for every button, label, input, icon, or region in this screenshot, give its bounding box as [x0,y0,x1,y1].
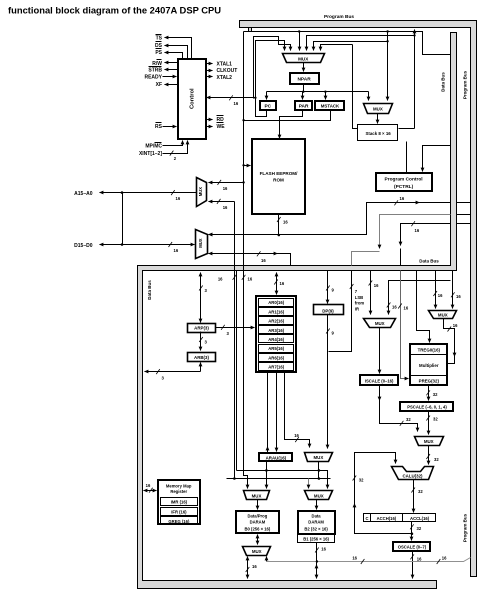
wire: band taps to program bus band [457,203,471,224]
svg-text:16: 16 [252,564,257,569]
svg-text:XF: XF [156,82,162,88]
wire: data bus band tap into PCTRL [423,146,451,172]
wire: 7 LSB from IR feed joining DP column [329,271,352,352]
svg-text:16: 16 [261,258,266,263]
wire: address rail 2 [227,478,331,480]
svg-text:16: 16 [392,305,397,310]
wire: FLASH ROM output down to program data wire [278,214,280,235]
mux: DARAM B2/B1 input MUX [305,491,333,500]
svg-text:OSCALE (0–7): OSCALE (0–7) [398,545,427,550]
bus: bar drop stub [249,28,252,32]
svg-text:AR6(16): AR6(16) [268,355,284,360]
node B: data address column [234,202,236,479]
block: MSTACK [315,101,344,110]
svg-text:3: 3 [205,340,208,345]
wire: XF out of Control left [165,84,178,86]
svg-text:16: 16 [417,556,422,561]
register: IFR(16) [161,508,198,516]
wire: rail to stack MUX left input [368,92,370,101]
svg-text:XTAL1: XTAL1 [217,61,233,67]
svg-text:MUX: MUX [314,455,324,460]
svg-text:LSB: LSB [355,295,363,300]
wire: stack MUX output to stack [377,114,379,124]
wire: rail to DARAM B2 mux input 1 [308,479,310,489]
wire: center mux output to ISCALE [379,328,381,374]
wire: data mux to FLASH wire W1 [209,234,279,236]
wire: data mux to core data bus [209,254,291,266]
wire: PAR to FLASH ROM [280,110,303,139]
svg-text:DARAM: DARAM [308,520,324,525]
svg-text:Program Bus: Program Bus [324,14,354,20]
svg-text:Program Bus: Program Bus [463,70,468,99]
block: ARP(3) [188,324,216,333]
svg-text:32: 32 [434,457,439,462]
svg-text:IR: IR [355,306,359,311]
svg-text:16: 16 [404,306,409,311]
wire: rail to DARAM B0 mux input 2 [266,471,268,489]
svg-text:MUX: MUX [198,187,203,197]
wire: AR file link to data bus band [276,273,278,295]
svg-text:TREG0(16): TREG0(16) [418,348,441,353]
wire: ISCALE output to ALU mux [379,385,381,401]
svg-text:MUX: MUX [373,107,383,112]
wire: feed to MUX input 5 [314,42,388,51]
svg-text:Register: Register [170,489,187,494]
svg-text:16: 16 [248,277,253,282]
svg-text:RS: RS [155,124,163,130]
block: Program Control (PCTRL) [376,173,432,191]
svg-text:16: 16 [374,283,379,288]
svg-text:2: 2 [174,156,177,161]
node A: program address column [244,32,248,489]
wire: riser from band to TREG0 [417,271,430,343]
block: Data/Prog DARAM B0 [236,511,279,533]
wire: PSCALE output to ALU mux [428,411,430,435]
svg-text:A15–A0: A15–A0 [74,191,93,197]
svg-text:16: 16 [400,196,405,201]
svg-text:XINT[1–2]: XINT[1–2] [139,151,162,157]
svg-text:(PCTRL): (PCTRL) [394,184,414,190]
svg-text:WE: WE [217,124,226,130]
wire: XINT[1-2] into Control bottom [163,141,188,154]
svg-text:ACCL(16): ACCL(16) [410,516,430,521]
svg-text:16: 16 [456,294,461,299]
register: ACCL(16) [403,514,436,522]
svg-text:B0 (256 × 16): B0 (256 × 16) [245,526,271,531]
svg-text:FLASH EEPROM/: FLASH EEPROM/ [260,171,298,176]
svg-text:AR1(16): AR1(16) [268,309,284,314]
block: ARB(3) [188,353,216,362]
svg-text:GREG (16): GREG (16) [168,519,190,524]
register: ACCH(16) [371,514,403,522]
wire: DS out of Control top [165,46,188,59]
wire: CLKOUT out of Control right [206,70,213,72]
wire: DP output to ARAU mux [327,315,329,449]
bus: CPU core Data Bus ring (left band, top band, bottom band, right vertical Data Bus band) [138,33,457,589]
svg-text:DARAM: DARAM [250,520,266,525]
register: C flag [364,514,371,522]
wire: feed to MUX input 3 from top rail [299,32,301,51]
block: DARAM B1 [298,535,335,543]
mux: program address MUX (top section) [283,54,325,63]
svg-text:MUX: MUX [198,238,203,248]
block: ARAU(16) [259,453,292,461]
svg-text:32: 32 [417,526,422,531]
wire: MSTACK bottom rail joining node A column [244,110,331,121]
svg-text:AR5(16): AR5(16) [268,346,284,351]
svg-text:16: 16 [415,228,420,233]
svg-text:PREG(32): PREG(32) [419,378,440,383]
svg-text:9: 9 [332,331,335,336]
mux: data pins MUX [196,230,208,259]
svg-text:Control: Control [190,88,196,109]
svg-text:16: 16 [321,547,326,552]
wire: B0 mux output [257,500,259,510]
block: OSCALE (0-7) [393,542,430,551]
wire: riser from program bus bar to stack right [414,30,416,129]
register: AR5(16) [259,345,294,353]
wire: rail branch to DARAM B2 mux input 2 [319,471,328,489]
wire: ARP to AR stack [216,327,255,329]
wire: ARAU result column riser [236,271,238,471]
svg-text:AR7(16): AR7(16) [268,365,284,370]
wire: W3 from band down through ring to PREG column [401,224,451,246]
svg-text:C: C [365,516,368,521]
svg-text:IFR (16): IFR (16) [171,509,187,514]
svg-text:PS: PS [155,50,162,56]
svg-text:from: from [355,301,365,306]
svg-text:16: 16 [352,556,357,561]
wire: AR file third port to ARAU mux [285,373,310,448]
wire: CALU output to ACC [413,480,415,513]
wire: right mux input 1 [435,271,437,309]
wire: NPAR output distribution rail [267,84,369,92]
svg-text:ISCALE (0–16): ISCALE (0–16) [365,378,394,383]
svg-text:XTAL2: XTAL2 [217,75,233,81]
wire: center mux input 2 from band corner [389,281,451,315]
wire: DP input from data bus band [327,271,329,304]
wire: rail to MSTACK [325,92,327,100]
svg-text:16: 16 [176,196,181,201]
wire: riser to MSTACK mux right input [387,32,389,101]
svg-text:Data Bus: Data Bus [419,259,439,264]
svg-text:AR2(16): AR2(16) [268,319,284,324]
register: AR4(16) [259,335,294,343]
register: AR2(16) [259,317,294,325]
svg-text:READY: READY [144,75,162,81]
wire: gray riser from band to PREG input [401,271,409,379]
svg-text:PSCALE (–6, 0, 1, 4): PSCALE (–6, 0, 1, 4) [407,404,447,409]
wire: address rail 1 [237,470,319,472]
svg-text:16: 16 [438,293,443,298]
alu: CALU(32) [392,467,434,480]
svg-text:ARAU(16): ARAU(16) [266,455,287,460]
wire: PS out of Control top [165,53,183,59]
wire: bottom mux to program bus (bottom band) [247,557,249,579]
block: Stack 8x16 [358,125,398,141]
block: Memory Map Register [158,480,200,524]
mux: operand select MUX (center) [364,319,396,328]
wire: READY into Control left [163,76,177,78]
wire: ACC feedback to CALU left input [355,453,412,534]
wire: ARAU mux output joining rails [318,462,320,479]
svg-text:16: 16 [453,323,458,328]
wire: A15-A0 address pins [100,192,197,194]
svg-text:16: 16 [218,277,223,282]
wire: stack to PCTRL [406,142,408,173]
wire: feed to MUX input 6 [321,45,353,51]
wire: feed to MUX input 4 from stack/program-bus riser [307,36,415,51]
svg-text:16: 16 [442,556,447,561]
svg-text:Program Control: Program Control [385,177,423,183]
block: TREG0 / Multiplier / PREG [410,344,447,385]
wire: OSCALE output to bottom data bus band [412,551,414,579]
svg-text:MUX: MUX [252,493,262,498]
svg-text:16: 16 [146,483,151,488]
wire: ARB to left data bus band [200,363,202,372]
wire: gray data wire to program bus band [267,558,471,562]
svg-text:MUX: MUX [438,313,448,318]
svg-text:Multiplier: Multiplier [419,363,439,368]
svg-text:B1 (256 × 16): B1 (256 × 16) [303,536,329,541]
wire: bottom mux to data wire [266,557,268,562]
wire: ACC output [411,522,413,541]
svg-text:16: 16 [280,281,285,286]
svg-text:9: 9 [332,288,335,293]
block: PAR [295,101,312,110]
svg-text:TS: TS [156,36,163,42]
block: Data DARAM B2 [298,511,335,534]
svg-text:32: 32 [359,478,364,483]
svg-text:ACCH(16): ACCH(16) [377,516,397,521]
wire: ARP to ARB [200,332,202,351]
wire: R/W out of Control left [165,62,178,64]
register: AR7(16) [259,363,294,371]
wire: W2 instruction wire from band to 7LSB column [380,215,451,249]
svg-text:B2 (32 × 16): B2 (32 × 16) [304,527,328,532]
wire: TS out of Control top [165,38,192,59]
wire: AR file to ARAU (write back) [267,373,269,454]
register: AR6(16) [259,354,294,362]
wire: PC loop feed to MUX input 1 [256,41,285,117]
mux: ARAU address MUX [305,453,333,462]
register: AR0(16) [259,299,294,307]
svg-text:16: 16 [174,248,179,253]
svg-text:32: 32 [406,417,411,422]
mux: CALU input MUX [415,437,444,446]
mux: stack input MUX (top right) [364,104,393,114]
block: PC [260,101,276,110]
svg-text:3: 3 [205,288,208,293]
wire: right mux output to multiplier [444,319,455,357]
svg-text:MP/MC: MP/MC [145,144,162,150]
wire: program data wire W1 from D-mux to data bus band [209,203,451,235]
block: DP(9) [314,305,344,315]
wire: rail to PAR [302,92,304,100]
svg-text:Data/Prog: Data/Prog [248,514,268,519]
wire: B2 mux output [316,500,318,510]
mux: DARAM B0 input MUX [244,491,270,500]
wire: D15-D0 data pins [100,244,195,246]
wire: XTAL1 out of Control right [206,63,213,65]
svg-text:MUX: MUX [298,57,309,62]
wire: node A stub into FLASH left [244,165,251,167]
wire: WE out of Control right [206,126,213,128]
svg-text:32: 32 [433,392,438,397]
svg-text:3: 3 [162,376,165,381]
svg-text:Data Bus: Data Bus [147,280,152,300]
wire: mux output to CALU [428,446,430,465]
svg-text:Data Bus: Data Bus [440,72,445,92]
svg-text:D15–D0: D15–D0 [74,243,93,249]
svg-text:Program Bus: Program Bus [463,513,468,542]
block: Control [178,59,206,139]
svg-text:NPAR: NPAR [297,76,311,82]
svg-text:3: 3 [227,331,230,336]
block: NPAR [290,73,319,84]
wire: STRB out of Control left [165,69,178,71]
block: FLASH EEPROM ROM [252,139,305,214]
svg-text:MUX: MUX [252,549,262,554]
svg-text:AR0(16): AR0(16) [268,300,284,305]
wire: ARAU output to address rail [266,461,268,471]
svg-text:Memory Map: Memory Map [166,484,192,489]
svg-text:16: 16 [234,101,239,106]
svg-text:functional block diagram of th: functional block diagram of the 2407A DS… [8,5,221,16]
wire: MMR link to left data bus band [144,490,157,492]
svg-text:IMR (16): IMR (16) [171,500,188,505]
svg-text:Stack 8 × 16: Stack 8 × 16 [365,131,391,136]
wire: RD out of Control right [206,119,213,121]
wire: right mux input 2 [452,271,454,309]
svg-text:STRB: STRB [148,68,162,74]
svg-text:ARP(3): ARP(3) [194,326,209,331]
svg-text:PC: PC [264,104,271,110]
wire: riser to stack left input [353,45,358,129]
wire: A-D tie column [122,193,124,245]
svg-text:32: 32 [418,489,423,494]
svg-text:ROM: ROM [273,178,284,183]
svg-text:ARB(3): ARB(3) [194,355,209,360]
block: ISCALE (0-16) [360,375,398,385]
svg-text:PAR: PAR [299,104,309,110]
mux: B0 data bus MUX [243,547,271,556]
block: AR register file AR0-AR7 [256,296,296,372]
wire: address mux input 1 from node A [209,182,244,184]
svg-text:MSTACK: MSTACK [321,104,340,109]
svg-text:16: 16 [283,220,288,225]
svg-text:DP(9): DP(9) [322,308,334,313]
svg-text:MUX: MUX [314,493,324,498]
mux: address output MUX [197,178,207,207]
register: IMR(16) [161,498,198,506]
wire: RS into Control left [163,126,177,128]
svg-text:16: 16 [223,186,228,191]
svg-text:16: 16 [223,205,228,210]
svg-text:AR3(16): AR3(16) [268,328,284,333]
wire: MP/MC into Control bottom [163,141,183,146]
register: AR3(16) [259,326,294,334]
wire: 16-bit bus into Control right from PC loop [207,97,256,99]
wire: feed to MUX input 2 [254,37,291,99]
svg-text:Data: Data [312,514,322,519]
svg-text:MUX: MUX [424,439,434,444]
wire: ARP link to data bus band [200,273,202,323]
register: AR1(16) [259,308,294,316]
svg-text:CALU(32): CALU(32) [402,474,423,479]
wire: address mux input 2 from node B [209,201,235,203]
wire: AR file to ARAU (read) [276,373,278,452]
svg-text:7: 7 [355,289,358,294]
svg-text:CLKOUT: CLKOUT [217,68,238,74]
wire: top rail from node A down to data bus band [244,32,451,55]
register: GREG(16) [161,517,198,525]
wire: B1 port to data wire and bottom band [316,543,318,579]
wire: center mux input 1 from band [370,271,372,315]
bus: top Program Bus bar with right vertical Program Bus band [240,21,477,577]
wire: PREG output to PSCALE [428,386,430,401]
svg-text:16: 16 [294,433,299,438]
svg-text:MUX: MUX [375,321,385,326]
wire: MUX output to NPAR [303,63,305,72]
mux: multiplier input MUX (right) [429,311,457,319]
svg-text:AR4(16): AR4(16) [268,337,284,342]
wire: XTAL2 out of Control right [206,76,213,78]
wire: rail to PC [266,92,268,100]
block: PSCALE (-6, 0, 1, 4) [400,402,453,411]
wire: B0 to bottom MUX (bidirectional) [257,535,259,545]
svg-text:32: 32 [433,417,438,422]
